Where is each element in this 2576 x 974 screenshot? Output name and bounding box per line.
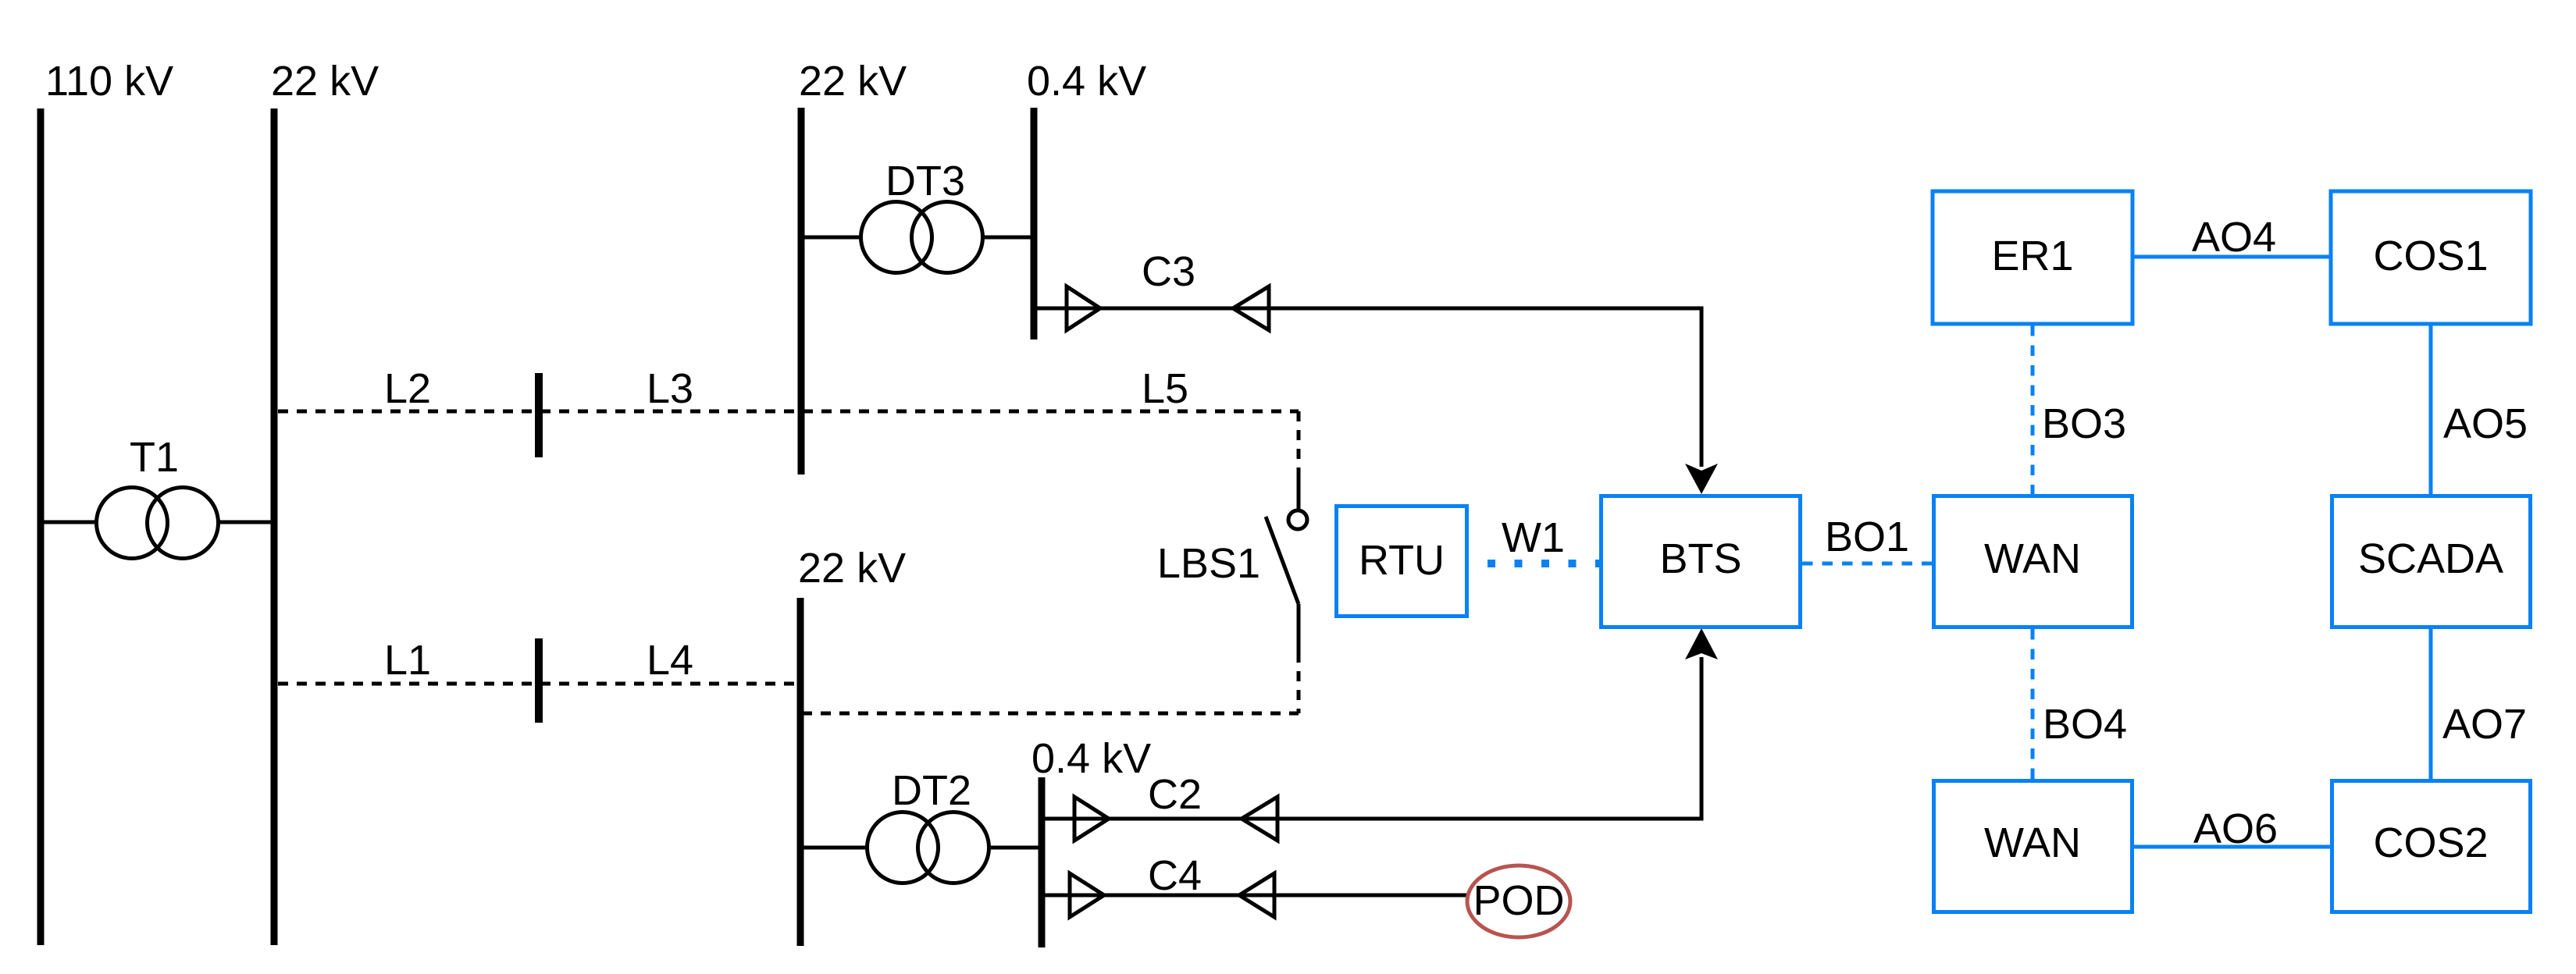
svg-text:0.4 kV: 0.4 kV: [1027, 58, 1146, 105]
busbar 0.4 kV B4: [1031, 108, 1038, 339]
transformer DT3: [861, 202, 983, 273]
svg-text:L5: L5: [1142, 365, 1188, 412]
breaker tick between L1 and L4: [535, 638, 543, 723]
svg-text:L3: L3: [647, 365, 693, 412]
svg-text:L2: L2: [384, 365, 431, 412]
link AO6: [2134, 845, 2330, 849]
fuse triangle C3 left-pointing: [1233, 286, 1269, 330]
fuse triangle C3 right-pointing: [1067, 286, 1100, 330]
fuse triangle C2 left-pointing: [1242, 797, 1277, 841]
link AO5: [2429, 325, 2433, 494]
svg-text:DT2: DT2: [892, 767, 971, 814]
transformer DT2: [868, 812, 989, 883]
wire DT3 connector: [801, 236, 863, 240]
link AO4: [2134, 255, 2330, 259]
svg-text:22 kV: 22 kV: [798, 545, 906, 592]
svg-text:BO3: BO3: [2042, 400, 2126, 447]
svg-text:22 kV: 22 kV: [799, 58, 907, 105]
wire lower tie feeder dashed: [802, 712, 1299, 716]
link AO7: [2429, 629, 2433, 779]
wire C3 to BTS: [1034, 308, 1701, 467]
box BTS: [1602, 496, 1801, 627]
wire DT2 connector: [800, 846, 869, 850]
switch LBS1: [1266, 478, 1307, 652]
svg-text:C2: C2: [1148, 771, 1202, 818]
wire L1-L4 dashed feeder: [278, 682, 798, 686]
node POD ellipse: [1467, 866, 1570, 937]
svg-text:RTU: RTU: [1359, 537, 1445, 584]
svg-text:SCADA: SCADA: [2358, 535, 2503, 582]
box RTU: [1337, 507, 1467, 617]
svg-text:T1: T1: [130, 434, 179, 481]
fuse triangle C2 right-pointing: [1074, 797, 1109, 841]
svg-text:BTS: BTS: [1659, 535, 1741, 582]
svg-text:AO4: AO4: [2192, 214, 2276, 261]
svg-text:DT3: DT3: [885, 158, 965, 204]
svg-text:W1: W1: [1502, 514, 1565, 561]
box COS2: [2332, 781, 2531, 912]
svg-text:L1: L1: [384, 637, 431, 684]
wire C2 to BTS: [1042, 657, 1701, 819]
svg-text:WAN: WAN: [1984, 819, 2081, 866]
svg-text:WAN: WAN: [1984, 535, 2081, 582]
arrowhead C3 into BTS: [1685, 464, 1718, 494]
box COS1: [2331, 191, 2531, 324]
busbar 22 kV B2: [271, 108, 278, 945]
busbar 22 kV B5: [797, 598, 804, 946]
box WAN upper: [1934, 496, 2132, 627]
wire LBS1 dashed riser: [1297, 652, 1301, 713]
svg-text:22 kV: 22 kV: [271, 58, 379, 105]
svg-text:110 kV: 110 kV: [45, 58, 173, 105]
fuse triangle C4 right-pointing: [1070, 873, 1104, 917]
wire L5 dashed drop: [1297, 411, 1301, 478]
link BO4 dashed: [2031, 629, 2035, 779]
svg-text:POD: POD: [1473, 877, 1564, 924]
svg-text:AO5: AO5: [2443, 400, 2528, 447]
busbar 22 kV B3: [798, 108, 805, 475]
link BO3 dashed: [2031, 325, 2035, 494]
svg-text:C4: C4: [1148, 852, 1202, 899]
wire C4 to POD: [1042, 894, 1468, 898]
box WAN lower: [1934, 781, 2132, 912]
box SCADA: [2332, 496, 2531, 627]
box ER1: [1933, 191, 2132, 324]
fuse triangle C4 left-pointing: [1239, 873, 1274, 917]
arrowhead C2 into BTS: [1685, 628, 1718, 659]
svg-text:LBS1: LBS1: [1157, 540, 1260, 587]
wire T1 connector: [41, 521, 98, 524]
svg-text:C3: C3: [1142, 248, 1195, 295]
link W1 dotted: [1488, 560, 1601, 567]
busbar 110 kV B1: [37, 108, 45, 945]
busbar 0.4 kV B6: [1039, 777, 1046, 947]
breaker tick between L2 and L3: [535, 373, 543, 457]
svg-text:BO1: BO1: [1825, 514, 1909, 560]
svg-text:AO7: AO7: [2442, 701, 2527, 748]
svg-text:L4: L4: [647, 637, 693, 684]
svg-text:ER1: ER1: [1991, 233, 2073, 279]
link BO1 dashed: [1802, 562, 1932, 566]
svg-text:COS1: COS1: [2373, 233, 2488, 279]
svg-text:COS2: COS2: [2373, 819, 2488, 866]
svg-text:BO4: BO4: [2043, 701, 2127, 748]
svg-text:0.4 kV: 0.4 kV: [1031, 735, 1151, 782]
transformer T1: [97, 488, 219, 559]
svg-text:AO6: AO6: [2193, 805, 2278, 852]
wire L2-L3-L5 dashed feeder: [278, 410, 1299, 414]
